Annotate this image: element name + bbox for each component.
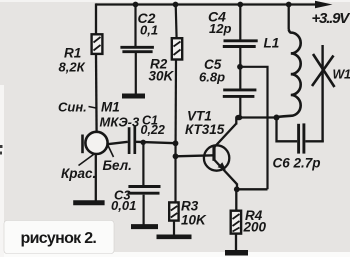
capacitor C1 <box>129 126 135 154</box>
ground (R4) <box>225 250 248 256</box>
supply arrow <box>315 1 333 8</box>
node: rail-L1 junction <box>286 2 292 8</box>
capacitor C4 <box>223 41 258 47</box>
label C4 12p <box>208 9 231 37</box>
caption white box <box>4 221 114 254</box>
capacitor C2 <box>120 47 153 51</box>
wire: feedback C4/C5 midpoint to emitter <box>240 67 268 190</box>
wire: R4 to ground <box>235 234 237 251</box>
svg-text:+3..9V: +3..9V <box>312 10 350 27</box>
wire: rail to R1 <box>95 3 97 34</box>
wire: collector node rail <box>236 116 277 118</box>
svg-text:Син.: Син. <box>58 100 87 115</box>
ground (R3) <box>157 235 192 240</box>
svg-text:10K: 10K <box>181 213 207 228</box>
label C3 0,01 <box>111 188 136 214</box>
label C2 0,1 <box>138 10 159 38</box>
wire: rail to C2 <box>134 5 136 47</box>
node: rail-C2 junction <box>133 2 139 8</box>
ground (C3) <box>131 224 158 229</box>
wire: collector up <box>235 118 237 125</box>
resistor R2 <box>172 38 182 59</box>
label Крас. with leader <box>61 155 96 182</box>
wire: mic to C1 <box>107 142 128 145</box>
label C1 0,22 <box>141 114 165 138</box>
svg-text:6.8p: 6.8p <box>199 70 225 85</box>
wire: C5 bottom to collector rail <box>239 98 241 118</box>
wire: R2 down to base node <box>174 60 177 158</box>
wire: base lead <box>176 155 215 156</box>
wire: emitter to feedback riser <box>237 188 268 190</box>
wire: C4 to C5 <box>239 48 241 67</box>
label R4 200 <box>243 208 267 235</box>
node: base tee <box>173 153 179 159</box>
edge specks <box>0 145 3 155</box>
label C5 6.8p <box>199 57 225 85</box>
wire: C1 to base node <box>136 142 176 143</box>
node: rail-R2 junction <box>173 2 179 8</box>
wire: R1 to microphone <box>95 54 98 133</box>
wire: emitter down <box>236 184 238 190</box>
transistor VT1 <box>204 124 237 185</box>
svg-text:12p: 12p <box>209 21 231 36</box>
node: C3 tap <box>141 140 146 145</box>
wire: rail to L1 <box>288 5 290 30</box>
resistor R1 <box>92 34 103 54</box>
svg-text:КТ315: КТ315 <box>185 122 225 137</box>
label R1 8,2K <box>59 46 86 75</box>
svg-text:Крас.: Крас. <box>61 166 96 181</box>
svg-text:рисунок 2.: рисунок 2. <box>21 230 97 247</box>
svg-text:200: 200 <box>243 220 267 235</box>
node: C1/base junction <box>173 140 179 146</box>
wire: rail to R2 <box>175 5 178 39</box>
wire: C3 to ground <box>143 195 145 225</box>
ground (mic) <box>73 200 104 205</box>
label R3 10K <box>181 199 207 228</box>
node: C4/C5 midpoint <box>237 64 243 70</box>
svg-text:30K: 30K <box>149 69 175 84</box>
wire: C5 top stub <box>239 67 241 89</box>
node: collector/C5 blob <box>235 115 242 121</box>
svg-text:Бел.: Бел. <box>103 158 132 173</box>
capacitor C5 <box>223 90 257 97</box>
wire: rail to C4 <box>239 5 241 40</box>
wire: C6 to antenna <box>305 140 323 142</box>
wire: base node down to R3 <box>174 156 176 202</box>
svg-text:R3: R3 <box>181 199 199 214</box>
resistor R3 <box>169 202 178 220</box>
capacitor C6 <box>299 123 304 153</box>
wire: R3 to ground <box>173 221 175 235</box>
capacitor C3 <box>128 187 161 194</box>
label Бел. with leader <box>103 146 132 174</box>
resistor R4 <box>231 211 241 234</box>
wire: C2 to ground <box>135 53 137 94</box>
label Син. with leader <box>58 100 96 115</box>
svg-text:М1: М1 <box>101 100 120 115</box>
antenna W1 <box>312 45 335 142</box>
svg-text:0,01: 0,01 <box>111 198 136 213</box>
inductor L1 <box>277 30 301 118</box>
ground (C2) <box>122 94 145 99</box>
node: L1 bottom junction <box>274 115 280 121</box>
node: emitter junction <box>234 186 240 192</box>
svg-text:W1: W1 <box>333 68 350 82</box>
svg-text:8,2К: 8,2К <box>59 60 86 75</box>
svg-text:0,22: 0,22 <box>141 123 165 137</box>
wire: down to C3 <box>142 142 144 185</box>
wire: +V top rail <box>96 3 318 5</box>
wire: R4 branch <box>235 189 237 210</box>
wire: mic to ground <box>95 154 97 201</box>
svg-text:0,1: 0,1 <box>140 23 158 38</box>
svg-text:L1: L1 <box>264 36 280 51</box>
label R2 30K <box>149 57 175 84</box>
wire: junction down to C6 <box>277 118 298 142</box>
node: rail-C4 junction <box>237 2 243 8</box>
microphone M1 <box>83 132 108 154</box>
svg-text:R1: R1 <box>64 46 81 61</box>
svg-text:C6 2.7p: C6 2.7p <box>273 156 321 171</box>
